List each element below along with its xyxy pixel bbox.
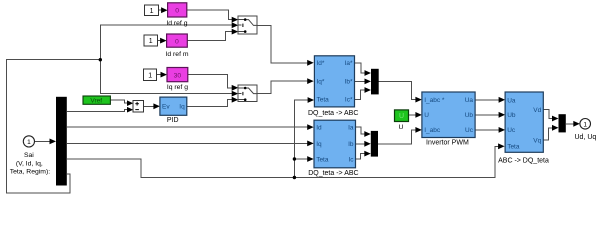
wire inport Sai to demux [35,139,57,145]
svg-text:I_abc *: I_abc * [424,97,445,104]
svg-text:Iq ref g: Iq ref g [167,84,188,91]
svg-text:Ua: Ua [465,97,474,104]
wire block1 Ic* to mux1 in3 [355,87,372,99]
svg-text:Iq: Iq [179,104,185,111]
subsystem Invertor PWM [422,92,475,147]
wire mux3 output to Invertor PWM I_abc [378,127,422,144]
svg-text:Ib: Ib [348,141,354,148]
svg-text:Ud, Uq: Ud, Uq [575,134,597,141]
wire mux2 output to outport 1 [566,121,580,127]
wire ABC-DQ Vq to mux2 in2 [543,125,558,140]
constant block 1 (feeds Id ref g) [145,5,159,16]
wire Invertor PWM Ub to ABC-DQ Ub [475,112,505,118]
wire Vref to sum plus input [110,100,133,106]
svg-text:1: 1 [148,72,152,79]
svg-text:Uc: Uc [507,127,516,134]
wire block2 Ia to mux3 in1 [356,127,371,137]
junction Regim wire [99,58,102,61]
svg-text:Ic: Ic [348,156,354,163]
svg-text:1: 1 [149,38,153,45]
wire block1 Ia* to mux1 in1 [355,63,372,76]
subsystem DQ_teta -> ABC (upper) [308,56,358,117]
wire sum output to PID input Ev [143,103,160,109]
wire PID output Iq to switch2 input3 [187,97,238,107]
svg-text:Ub: Ub [465,112,474,119]
wire Regim: demux out5 loop around bottom-left up to switch control junction [6,60,100,193]
mux2 [559,114,566,132]
svg-text:Ia*: Ia* [345,60,353,67]
constant block 1 (feeds Id ref m) [144,35,158,46]
svg-text:0: 0 [175,8,179,15]
svg-text:DQ_teta -> ABC: DQ_teta -> ABC [308,170,358,177]
wire Invertor PWM Ua to ABC-DQ Ua [475,97,505,103]
svg-text:Uc: Uc [465,127,474,134]
svg-text:30: 30 [174,73,182,80]
wire demux out3 Iq to block2 Iq [67,141,314,147]
wire demux out4 Teta bottom run to ABC-DQ Teta [67,143,505,177]
wire ABC-DQ Vd to mux2 in1 [543,110,558,122]
svg-text:U: U [424,112,429,119]
wire Teta riser branch to block1 Teta [294,97,314,177]
svg-text:Iq*: Iq* [317,78,325,85]
sum block (+/-) [133,101,143,112]
svg-text:Teta: Teta [507,144,520,151]
wire switch1 output to block1 Id* [257,26,314,66]
wire gain Id ref g to switch1 input1 [187,10,238,22]
wire mux1 output to Invertor PWM I_abc* [379,82,422,103]
wire block1 Ib* to mux1 in2 [355,79,372,85]
svg-text:Teta, Regim):: Teta, Regim): [10,169,51,176]
svg-text:Ic*: Ic* [345,97,353,104]
PID controller block [160,97,187,124]
subsystem DQ_teta -> ABC (lower) [308,120,358,177]
wire Invertor PWM Uc to ABC-DQ Uc [475,127,505,133]
wire block2 Ib to mux3 in2 [356,141,371,147]
inport 1 Sai [10,136,51,176]
svg-text:DQ_teta -> ABC: DQ_teta -> ABC [308,110,358,117]
svg-text:1: 1 [583,121,587,128]
wire demux out2 Id to block2 Id [67,124,314,130]
constant U (green) [395,110,409,131]
wire demux out1 V to sum minus input [67,107,133,113]
wire Teta branch to block2 Teta [294,156,313,162]
switch1 (Id reference selector) [238,16,257,34]
wire switch2 output to block1 Iq* [257,78,314,93]
svg-text:Teta: Teta [316,156,329,163]
svg-text:Id ref m: Id ref m [165,51,188,58]
svg-text:Vd: Vd [533,107,541,114]
wire Regim branch up to switch1 control input [100,22,238,59]
demux (V, Id, Iq, Teta, Regim) [56,97,67,186]
svg-text:U: U [399,113,404,120]
svg-text:Ev: Ev [162,104,170,111]
constant block 1 (feeds Iq ref g) [144,69,157,80]
svg-text:0: 0 [175,38,179,45]
svg-text:Teta: Teta [317,97,330,104]
outport 1 Ud, Uq [575,119,597,141]
subsystem ABC -> DQ_teta [498,92,549,164]
svg-text:Id ref g: Id ref g [166,20,187,27]
junction Teta riser at bottom run [293,176,296,179]
svg-text:ABC -> DQ_teta: ABC -> DQ_teta [498,157,549,164]
svg-text:PID: PID [167,117,179,124]
gain Id ref g [166,3,187,27]
svg-text:Sai: Sai [24,152,34,159]
junction Teta branch to block2 [293,157,296,160]
mux1 [371,69,379,95]
gain Id ref m [165,34,188,58]
svg-text:Ib*: Ib* [345,78,353,85]
constant Vref (green) [83,96,110,105]
svg-text:Vref: Vref [90,98,102,105]
wire constant2 to gain Id ref m [157,38,167,44]
svg-text:1: 1 [150,8,154,15]
switch2 (Iq reference selector) [238,85,257,102]
svg-text:Id*: Id* [317,60,325,67]
svg-text:(V, Id, Iq,: (V, Id, Iq, [16,160,43,167]
svg-text:Ia: Ia [348,124,354,131]
gain Iq ref g [167,68,188,92]
wire block2 Ic to mux3 in3 [356,151,371,159]
svg-text:Ub: Ub [507,112,516,119]
svg-text:I_abc: I_abc [424,127,441,134]
svg-text:Invertor PWM: Invertor PWM [426,140,469,147]
wire Regim branch down to switch2 control input [100,60,238,97]
wire gain Iq ref g to switch2 input1 [188,75,238,91]
svg-text:Vq: Vq [533,138,541,145]
svg-text:Id: Id [316,124,322,131]
wire constant U to Invertor PWM U [409,112,422,118]
mux3 [371,131,378,157]
wire constant1 to gain Id ref g [159,7,168,13]
wire gain Id ref m to switch1 input3 [187,29,238,41]
svg-text:Iq: Iq [316,141,322,148]
wire constant3 to gain Iq ref g [157,72,167,78]
svg-text:1: 1 [27,139,31,146]
svg-text:Ua: Ua [507,97,516,104]
svg-text:U: U [398,124,403,131]
